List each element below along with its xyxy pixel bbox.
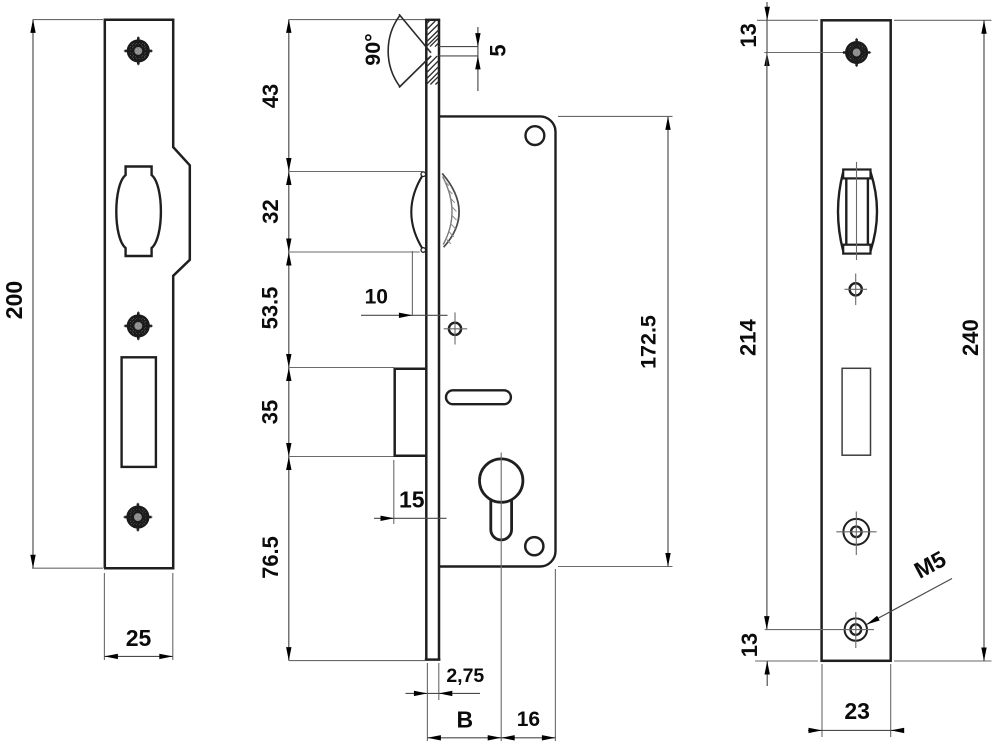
svg-text:13: 13 [736, 23, 761, 47]
svg-text:35: 35 [258, 400, 283, 424]
svg-text:10: 10 [365, 286, 388, 309]
svg-text:23: 23 [844, 698, 870, 724]
svg-text:43: 43 [258, 84, 283, 108]
svg-text:25: 25 [126, 625, 152, 651]
svg-text:2,75: 2,75 [446, 665, 484, 687]
svg-text:214: 214 [736, 318, 761, 355]
svg-text:90°: 90° [361, 33, 385, 66]
svg-text:240: 240 [958, 319, 983, 356]
svg-text:13: 13 [737, 633, 762, 657]
svg-text:53.5: 53.5 [258, 287, 283, 330]
svg-text:76.5: 76.5 [258, 536, 283, 579]
svg-text:15: 15 [399, 487, 425, 513]
svg-text:200: 200 [1, 281, 27, 319]
svg-text:B: B [456, 707, 473, 733]
svg-text:172.5: 172.5 [636, 315, 660, 369]
svg-text:5: 5 [486, 44, 511, 56]
svg-text:16: 16 [517, 708, 540, 731]
svg-text:32: 32 [258, 199, 283, 223]
